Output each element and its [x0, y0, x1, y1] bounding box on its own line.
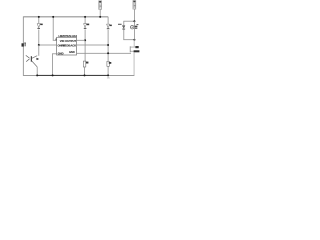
capacitor C2 [133, 1, 136, 10]
wire U1 OUT to C3 [77, 39, 86, 42]
pin number 1 label [56, 39, 58, 41]
diode D3 [84, 24, 90, 29]
wire C1 to top rail [99, 9, 102, 16]
capacitor C1 [99, 1, 102, 10]
connector J1 on left rail [22, 42, 26, 46]
wire top rail VIN [23, 15, 108, 18]
U1 pin text ON/OFF [58, 44, 67, 48]
svg-text:GND: GND [58, 51, 64, 55]
regulator U1 box [57, 37, 77, 55]
junction wire3/C4 [107, 52, 109, 54]
U1 pin text VIN [60, 39, 65, 43]
junction node D1/Q1 [38, 44, 40, 46]
resistor R2 [107, 61, 111, 66]
junction D2 wire / C2 chain [133, 39, 135, 41]
wire D1 bottom to node [37, 30, 40, 46]
wire node to U1 pin FB left [39, 44, 57, 47]
wire D2 down and corner [123, 29, 134, 40]
wire R1 to bottom rail [83, 67, 86, 76]
svg-text:OUTPUT: OUTPUT [65, 39, 76, 43]
junction emitter/bottom rail [36, 74, 38, 76]
lamp LS1 [130, 24, 138, 29]
wire R2 to bottom rail [107, 66, 110, 75]
phototransistor Q1 [26, 55, 39, 67]
resistor R1 [83, 61, 88, 67]
wire top rail corner into C4 [107, 17, 110, 24]
diode D2 label [118, 23, 122, 26]
svg-text:FEEDBACK: FEEDBACK [61, 44, 76, 48]
junction top rail / IN [52, 16, 54, 18]
wire U1 FB right to C4 [77, 44, 109, 47]
wire IN corner from top rail [53, 17, 57, 41]
junction C1/top rail [99, 16, 101, 18]
wire D2 top [122, 21, 125, 25]
U1 pin text FEEDBACK [61, 44, 76, 48]
wire C3 top [84, 17, 87, 24]
diode D2 [122, 26, 125, 30]
junction wire2/C4 [107, 44, 109, 46]
junction R2/bottom rail [107, 74, 109, 76]
wire bottom rail GND right [109, 75, 135, 76]
U1 pin text GND right [69, 50, 75, 54]
wire Q1 collector up [37, 45, 40, 56]
U1 title label [59, 34, 78, 38]
svg-text:VIN: VIN [60, 39, 65, 43]
junction C3/top rail [84, 16, 86, 18]
wire left rail [22, 16, 25, 75]
LED D1 [37, 24, 43, 29]
U1 pin text OUTPUT [65, 39, 76, 43]
diode D4 [107, 24, 112, 29]
junction GND/bottom rail [52, 74, 54, 76]
wire bottom rail GND center [37, 75, 109, 76]
svg-text:LM2576HV-ADJ: LM2576HV-ADJ [59, 34, 78, 38]
junction C2 drop [133, 20, 135, 22]
wire D1 top [37, 17, 40, 24]
wire C3 down [84, 29, 87, 61]
wire Q1 emitter down [36, 67, 39, 76]
wire U1 GND pin to bottom rail [52, 53, 56, 75]
svg-text:GND: GND [69, 50, 75, 54]
U1 pin text GND [58, 51, 64, 55]
wire U1 out row3 long [77, 52, 132, 55]
junction R1/bottom rail [84, 74, 86, 76]
ground [107, 76, 110, 78]
wire down to connector J2 [133, 40, 136, 47]
junction D1/top rail [38, 16, 40, 18]
wire top link D2/C2 [123, 20, 134, 23]
junction node OUT1 [84, 39, 86, 41]
connector J2 [130, 46, 140, 52]
wire bottom rail GND left [23, 75, 37, 76]
wire C4 down [107, 30, 110, 62]
wire C2 down [133, 9, 136, 21]
wire C2 chain through lamp [133, 21, 136, 40]
wire J2 pin2 to bottom rail [133, 52, 136, 75]
